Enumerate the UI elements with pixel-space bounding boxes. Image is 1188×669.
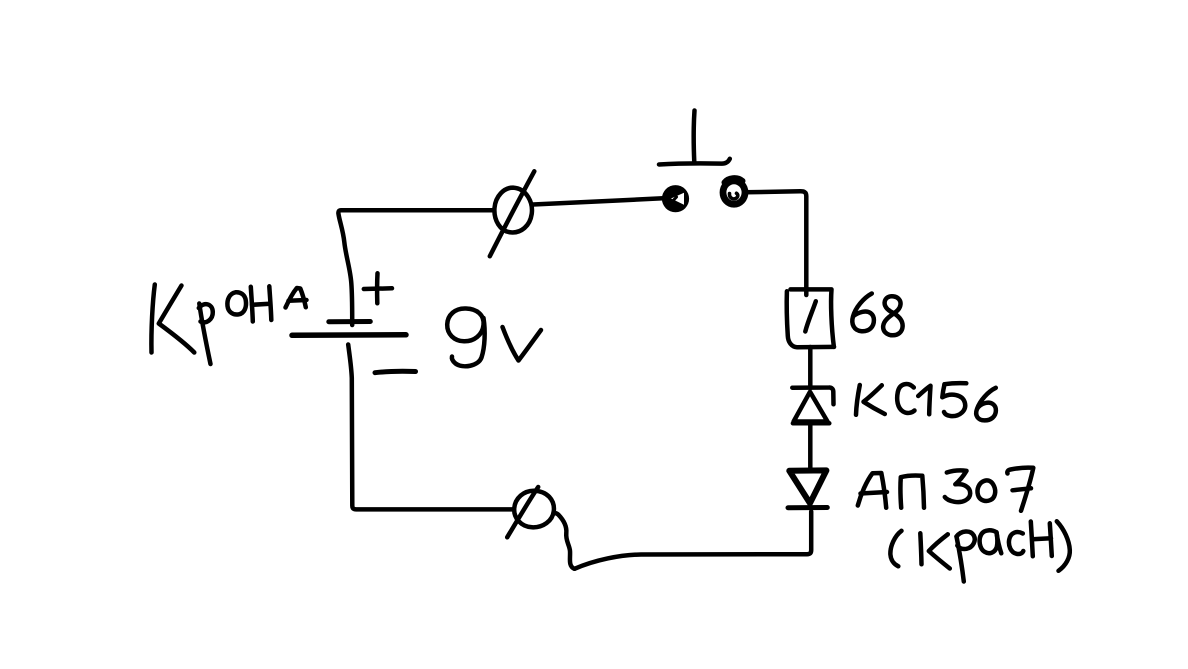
label 9v [447,308,541,366]
switch S1 right contact (scribbled ring) [723,181,745,204]
label KC156 [856,383,996,420]
connector J2 circle [514,491,554,528]
wire J2 left, corner, battery - lead up [348,345,514,510]
connector J1 slash [490,171,535,256]
connector J1 circle [494,188,532,233]
wire R1 to zener D1 [808,347,813,388]
switch S1 left contact (filled dot with notch) [662,185,689,212]
battery minus sign [375,371,416,372]
wire switch to resistor R1 [746,191,807,295]
resistor R1 slash mark [805,301,816,331]
label (krasn) [890,521,1069,581]
zener D1 cathode bar with hook [792,387,833,404]
LED VD1 triangle [789,470,826,503]
wire LED down, corner, bottom horizontal leftwards [575,512,812,569]
label AL307 [858,468,1034,511]
zener D1 base bar [793,421,829,426]
switch S1 actuator stem [691,111,696,163]
wire J1 to switch left contact [533,198,663,204]
label Krona [151,285,306,365]
LED VD1 cathode bar [788,505,827,510]
label 68 [852,294,874,332]
wire wiggle down from connector J2 [554,513,575,569]
wire D1 to LED VD1 [808,424,813,471]
wire top (battery + lead up, corner, horizontal to connector J1) [338,210,492,325]
battery B1 bottom plate [292,332,406,338]
switch S1 actuator bar [659,159,730,165]
battery plus sign [364,286,392,291]
connector J2 slash [507,487,538,537]
battery B1 top plate [329,319,371,324]
resistor R1 box [787,291,834,347]
zener D1 triangle [794,392,828,422]
